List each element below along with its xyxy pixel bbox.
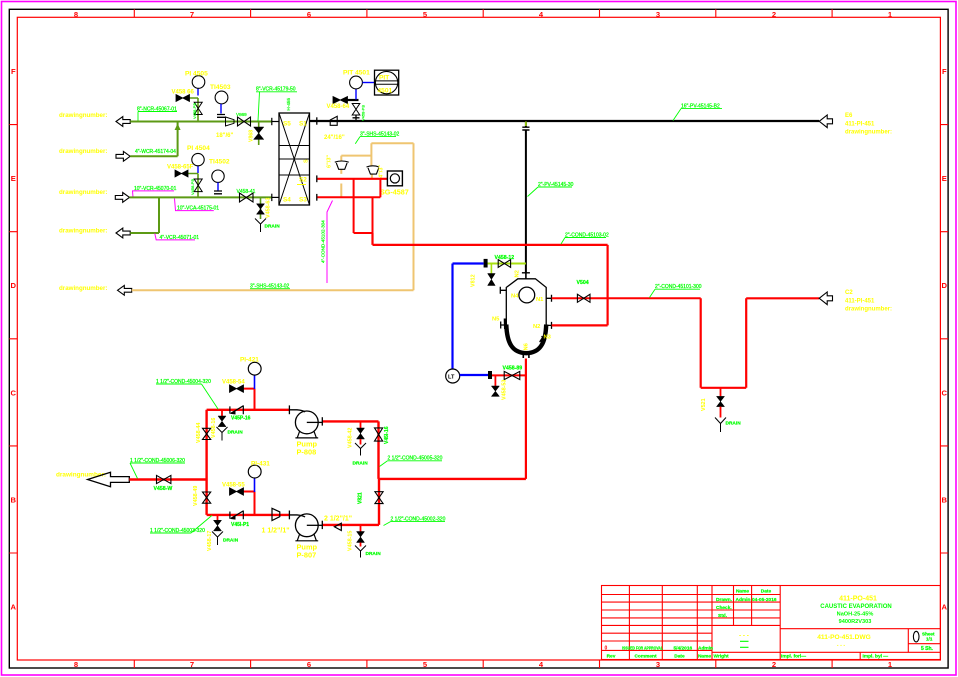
valve control vertical on stem [194, 102, 202, 114]
title block grid [602, 586, 941, 660]
svg-text:V458 66: V458 66 [172, 89, 195, 95]
off-page arrow A1 [116, 117, 130, 127]
valve V458-89 [492, 374, 526, 376]
svg-text:drawingnumber:: drawingnumber: [56, 472, 106, 479]
svg-text:D: D [11, 281, 17, 290]
svg-text:8: 8 [74, 10, 78, 19]
svg-text:LT: LT [448, 375, 455, 381]
svg-text:C: C [11, 388, 17, 397]
svg-text:N3: N3 [544, 335, 552, 341]
svg-text:10"-VCA-45175-01: 10"-VCA-45175-01 [177, 205, 219, 211]
wire top branch red [207, 409, 290, 411]
drain symbol top [217, 427, 228, 441]
svg-text:V458-89: V458-89 [503, 366, 523, 372]
svg-text:Rev: Rev [607, 654, 616, 660]
wire stem up to PI4505 [190, 98, 199, 122]
svg-text:Impl. forl—: Impl. forl— [781, 654, 806, 660]
svg-text:A: A [11, 603, 17, 612]
svg-text:Date: Date [761, 589, 772, 595]
wire S3 red [318, 179, 381, 198]
svg-text:PI-421: PI-421 [240, 356, 259, 363]
vessel body [506, 279, 546, 332]
wire tan funnel stems [341, 169, 372, 197]
svg-text:Impl. byl —: Impl. byl — [863, 654, 889, 660]
nozzle N1 [546, 295, 552, 302]
svg-text:V458-PB: V458-PB [190, 179, 195, 195]
drain symbol P807 [355, 546, 366, 558]
svg-text:P-807: P-807 [297, 551, 317, 560]
instrument PI-421 [254, 375, 256, 389]
instrument PI 4504 [197, 166, 199, 173]
valve V458-12 line chartreuse [488, 263, 526, 265]
svg-text:C2: C2 [845, 290, 853, 296]
wire N2 red return [552, 245, 608, 326]
valve V45I-16 [375, 428, 383, 441]
nozzle N2 right [546, 322, 552, 329]
svg-text:drawingnumber:: drawingnumber: [59, 112, 107, 119]
pump P-807 [288, 511, 290, 520]
svg-text:6"/3": 6"/3" [327, 155, 333, 168]
svg-text:V458-16: V458-16 [211, 418, 217, 438]
instrument PI 4505 [197, 88, 199, 95]
svg-text:DRAIN: DRAIN [223, 538, 239, 544]
svg-text:drawingnumber:: drawingnumber: [59, 285, 107, 292]
svg-text:24"/16": 24"/16" [324, 135, 345, 141]
svg-text:PI 4505: PI 4505 [185, 71, 208, 78]
funnel F1 [335, 161, 349, 169]
valve V458-53 drain [494, 375, 496, 386]
svg-text:1 1/2"/1": 1 1/2"/1" [262, 528, 290, 535]
valve V458-49 [203, 492, 211, 503]
svg-text:V458-63: V458-63 [266, 198, 272, 218]
svg-text:V458-53: V458-53 [502, 380, 508, 400]
node S4 stub [271, 194, 273, 201]
valve V458-66 [176, 95, 190, 102]
svg-text:V812: V812 [471, 274, 477, 287]
sight glass SG-4587 [387, 171, 402, 186]
svg-text:B: B [942, 495, 948, 504]
valve V458-64 [333, 97, 348, 104]
nozzle N5 [501, 322, 507, 329]
svg-text:C: C [942, 388, 948, 397]
valve V812 [490, 264, 492, 274]
svg-text:3: 3 [656, 10, 660, 19]
svg-text:SG-4587: SG-4587 [380, 188, 409, 197]
svg-text:CAUSTIC EVAPORATION: CAUSTIC EVAPORATION [820, 604, 891, 610]
wire pipe4 olive [130, 198, 159, 233]
wire N1 red product line [552, 297, 701, 299]
svg-text:H-455: H-455 [286, 98, 291, 111]
svg-text:S1: S1 [299, 121, 307, 128]
svg-text:Admin: Admin [698, 645, 713, 651]
svg-text:1/1: 1/1 [926, 636, 933, 641]
off-page arrow A2 right [116, 151, 130, 161]
svg-text:V458-55: V458-55 [222, 483, 245, 489]
svg-text:PI-431: PI-431 [251, 461, 270, 468]
svg-text:411-PI-451: 411-PI-451 [845, 122, 875, 128]
wire red seal U-loop [701, 298, 820, 388]
node S5 stub [271, 118, 273, 125]
svg-text:V458-17: V458-17 [207, 531, 213, 551]
drain symbol V521 [715, 418, 726, 433]
svg-text:S4: S4 [283, 197, 291, 204]
svg-text:2: 2 [772, 660, 776, 669]
wire tan steam header [132, 143, 414, 290]
reducer 24"/16" [330, 116, 337, 125]
check valve V45P-16 [230, 405, 243, 414]
valve V521 drain [720, 388, 722, 397]
svg-text:DRAIN: DRAIN [228, 430, 244, 436]
valve control vertical on stem3 [194, 179, 202, 192]
svg-text:N6: N6 [524, 342, 530, 350]
svg-text:411-PO-451: 411-PO-451 [839, 596, 877, 603]
valve V458-15 drain stem [360, 525, 362, 532]
off-page arrow A5 left [118, 285, 132, 295]
svg-text:V458-12: V458-12 [495, 255, 515, 261]
svg-text:N2: N2 [533, 324, 540, 330]
off-page arrow C2 [819, 292, 832, 305]
reducer 18"/6" [226, 117, 235, 126]
svg-text:18"/6": 18"/6" [216, 133, 234, 139]
svg-text:V45I-P1: V45I-P1 [231, 522, 249, 528]
manway N4 [519, 287, 535, 303]
nozzle N3 [540, 336, 546, 342]
valve V458-W [157, 475, 171, 483]
svg-text:V458-PB: V458-PB [361, 105, 366, 121]
svg-text:DRAIN: DRAIN [353, 461, 369, 467]
svg-text:S3: S3 [299, 197, 307, 204]
svg-text:NaOH-25-45%: NaOH-25-45% [837, 612, 874, 618]
valve V821 [375, 492, 383, 504]
svg-text:DRAIN: DRAIN [265, 224, 281, 230]
svg-text:PIT 4501: PIT 4501 [343, 70, 370, 77]
svg-text:V504: V504 [577, 280, 589, 286]
magenta jacket leader S3 [327, 201, 333, 284]
svg-text:drawingnumber:: drawingnumber: [59, 189, 107, 196]
svg-text:Name: Name [698, 654, 711, 660]
svg-text:4501: 4501 [378, 88, 393, 95]
valve V458-42 drain stem [360, 421, 362, 428]
svg-text:E: E [942, 174, 947, 183]
svg-text:V458-65F: V458-65F [167, 165, 194, 171]
wire steam main black [310, 120, 820, 122]
svg-text:ISSUED FOR APPROVAL: ISSUED FOR APPROVAL [622, 645, 663, 650]
svg-text:5/4/2016: 5/4/2016 [674, 645, 693, 651]
wire P-807 discharge red [322, 479, 379, 525]
svg-text:- - -: - - - [837, 642, 846, 648]
funnel F2 [367, 166, 380, 174]
wire discharge header red [379, 478, 526, 480]
reducer 2 1/2"/1" [334, 523, 341, 530]
wire vessel bottom red down [525, 359, 527, 479]
svg-text:5 Sh.: 5 Sh. [921, 646, 934, 652]
valve drain stem bottom-left [217, 515, 219, 520]
svg-text:drawingnumber:: drawingnumber: [59, 148, 107, 155]
wire vessel feed black vertical [525, 122, 527, 273]
ruler zone numbers bottom [74, 660, 893, 669]
flange pair [522, 127, 529, 130]
svg-text:S2: S2 [299, 177, 307, 184]
wire bottom branch red [207, 514, 290, 516]
ruler zone letters right [942, 67, 948, 612]
svg-text:6: 6 [307, 10, 311, 19]
drain stem V868 [258, 122, 260, 146]
heat exchanger H-455 [279, 113, 310, 205]
svg-text:Name: Name [736, 589, 749, 595]
svg-text:N4: N4 [511, 294, 519, 300]
valve V869 olive [238, 117, 251, 126]
blind flange hatched 2 [488, 371, 492, 379]
drain symbol [255, 219, 266, 233]
svg-text:B: B [11, 495, 17, 504]
nozzle top left stub [500, 287, 506, 294]
svg-text:V458-PB: V458-PB [192, 103, 197, 119]
svg-text:V458-64: V458-64 [327, 104, 350, 110]
valve V458-54 with PI-421 [244, 389, 255, 410]
reducer 1 1/2"/1" [272, 508, 280, 520]
svg-text:S: S [304, 159, 310, 163]
svg-text:0: 0 [605, 645, 608, 651]
svg-text:V458-15: V458-15 [348, 531, 354, 551]
svg-text:V869: V869 [236, 112, 247, 117]
svg-text:3: 3 [656, 660, 660, 669]
svg-text:N2: N2 [515, 270, 521, 277]
svg-text:TI4502: TI4502 [209, 159, 230, 166]
svg-text:Drawn.: Drawn. [716, 597, 732, 603]
svg-text:N1: N1 [536, 297, 544, 303]
svg-text:Comment: Comment [634, 654, 657, 660]
svg-text:drawingnumber:: drawingnumber: [59, 228, 107, 235]
svg-text:411-PI-451: 411-PI-451 [845, 299, 875, 305]
svg-text:E: E [11, 174, 16, 183]
label 10"-VCA-45175-01 magenta jacket2 [175, 199, 214, 211]
svg-text:4"-WCR-45174-04: 4"-WCR-45174-04 [135, 149, 176, 155]
wire pipe1 olive [130, 121, 272, 123]
drain branch V458-63 [260, 197, 262, 219]
wire suction header red [129, 478, 206, 480]
svg-text:P-808: P-808 [297, 448, 317, 457]
svg-text:04-05-2016: 04-05-2016 [752, 597, 777, 603]
svg-text:DRAIN: DRAIN [726, 420, 742, 426]
off-page arrow A3 right [115, 193, 129, 203]
svg-text:Std.: Std. [718, 613, 727, 619]
vessel bottom dish heavy [506, 325, 546, 354]
wire pipe3 olive [130, 196, 273, 198]
ruler zone letters left [11, 67, 17, 612]
off-page arrow E6 [819, 115, 832, 128]
ruler zone numbers top [74, 10, 893, 19]
wire loop left vertical red [205, 410, 207, 515]
svg-text:V45I-16: V45I-16 [384, 426, 390, 444]
svg-text:V868: V868 [249, 130, 255, 142]
check valve V45I-P1 [230, 511, 243, 520]
svg-text:Date: Date [674, 654, 685, 660]
sheet oval [913, 631, 919, 642]
label 4"-VCR-45071-01 [155, 234, 195, 240]
svg-text:S5: S5 [283, 121, 291, 128]
svg-text:TI4503: TI4503 [210, 84, 231, 91]
svg-text:V521: V521 [701, 398, 707, 411]
svg-text:8: 8 [74, 660, 78, 669]
drain symbol P808 [355, 443, 366, 456]
svg-text:PI 4504: PI 4504 [187, 145, 210, 152]
wire blue LT line [453, 264, 484, 370]
svg-text:V458-49: V458-49 [193, 486, 199, 506]
svg-text:N5: N5 [492, 316, 500, 322]
pump P-808 [288, 405, 290, 414]
svg-text:2: 2 [772, 10, 776, 19]
svg-text:4"/3": 4"/3" [379, 165, 385, 178]
svg-text:PIT: PIT [379, 75, 389, 82]
valve relief on stem [352, 104, 360, 116]
svg-text:V821: V821 [358, 492, 364, 504]
instrument LT [446, 369, 460, 383]
svg-text:Check.: Check. [716, 605, 732, 611]
wire P-808 discharge red [322, 421, 378, 479]
svg-text:- - -: - - - [739, 633, 749, 640]
wire pipe2 olive [130, 122, 177, 156]
blind flange hatched [484, 259, 488, 268]
svg-text:V458-54: V458-54 [222, 380, 245, 386]
svg-text:F: F [11, 67, 16, 76]
svg-text:9400R2V303: 9400R2V303 [839, 619, 872, 625]
drain symbol bottom-left [212, 532, 223, 546]
valve V504 [577, 294, 590, 302]
svg-text:6: 6 [307, 660, 311, 669]
svg-text:Admin: Admin [736, 597, 751, 603]
svg-text:V458-W: V458-W [154, 486, 173, 492]
instrument PIT 4501 [355, 89, 357, 100]
svg-text:D: D [942, 281, 948, 290]
svg-text:drawingnumber:: drawingnumber: [845, 130, 892, 136]
wire red to condensate header [373, 233, 608, 245]
svg-text:E6: E6 [845, 113, 853, 119]
nozzle N6 bottom flange [523, 353, 529, 358]
DCS box PIT 4501 [375, 70, 399, 95]
nozzle N2 top [525, 274, 527, 279]
wire stem up to PI4504 [188, 174, 198, 198]
valve V458-55 with PI-431 [244, 492, 255, 515]
svg-text:4"-VCR-45071-01: 4"-VCR-45071-01 [160, 235, 200, 241]
svg-text:4"-COND-45102-304: 4"-COND-45102-304 [321, 220, 326, 263]
svg-text:V458-44: V458-44 [196, 423, 202, 443]
svg-text:DRAIN: DRAIN [366, 551, 382, 557]
valve V458-44 [203, 428, 211, 439]
wire S2 red [318, 178, 388, 180]
svg-text:V45P-16: V45P-16 [231, 415, 251, 421]
wire red seal loop [354, 179, 373, 233]
svg-text:7: 7 [190, 660, 194, 669]
svg-text:drawingnumber:: drawingnumber: [845, 307, 892, 313]
off-page arrow A4 left [116, 228, 130, 238]
svg-text:2 1/2"/1": 2 1/2"/1" [324, 515, 352, 522]
valve V458-16 drain stem [221, 410, 223, 416]
svg-text:A: A [942, 603, 948, 612]
svg-text:F: F [942, 67, 947, 76]
svg-text:Wright: Wright [714, 654, 730, 660]
instrument PI-431 [254, 478, 256, 492]
svg-text:7: 7 [190, 10, 194, 19]
svg-text:V458-42: V458-42 [348, 428, 354, 448]
valve V458-65F [175, 170, 188, 177]
svg-text:411-PO-451.DWG: 411-PO-451.DWG [817, 634, 871, 641]
